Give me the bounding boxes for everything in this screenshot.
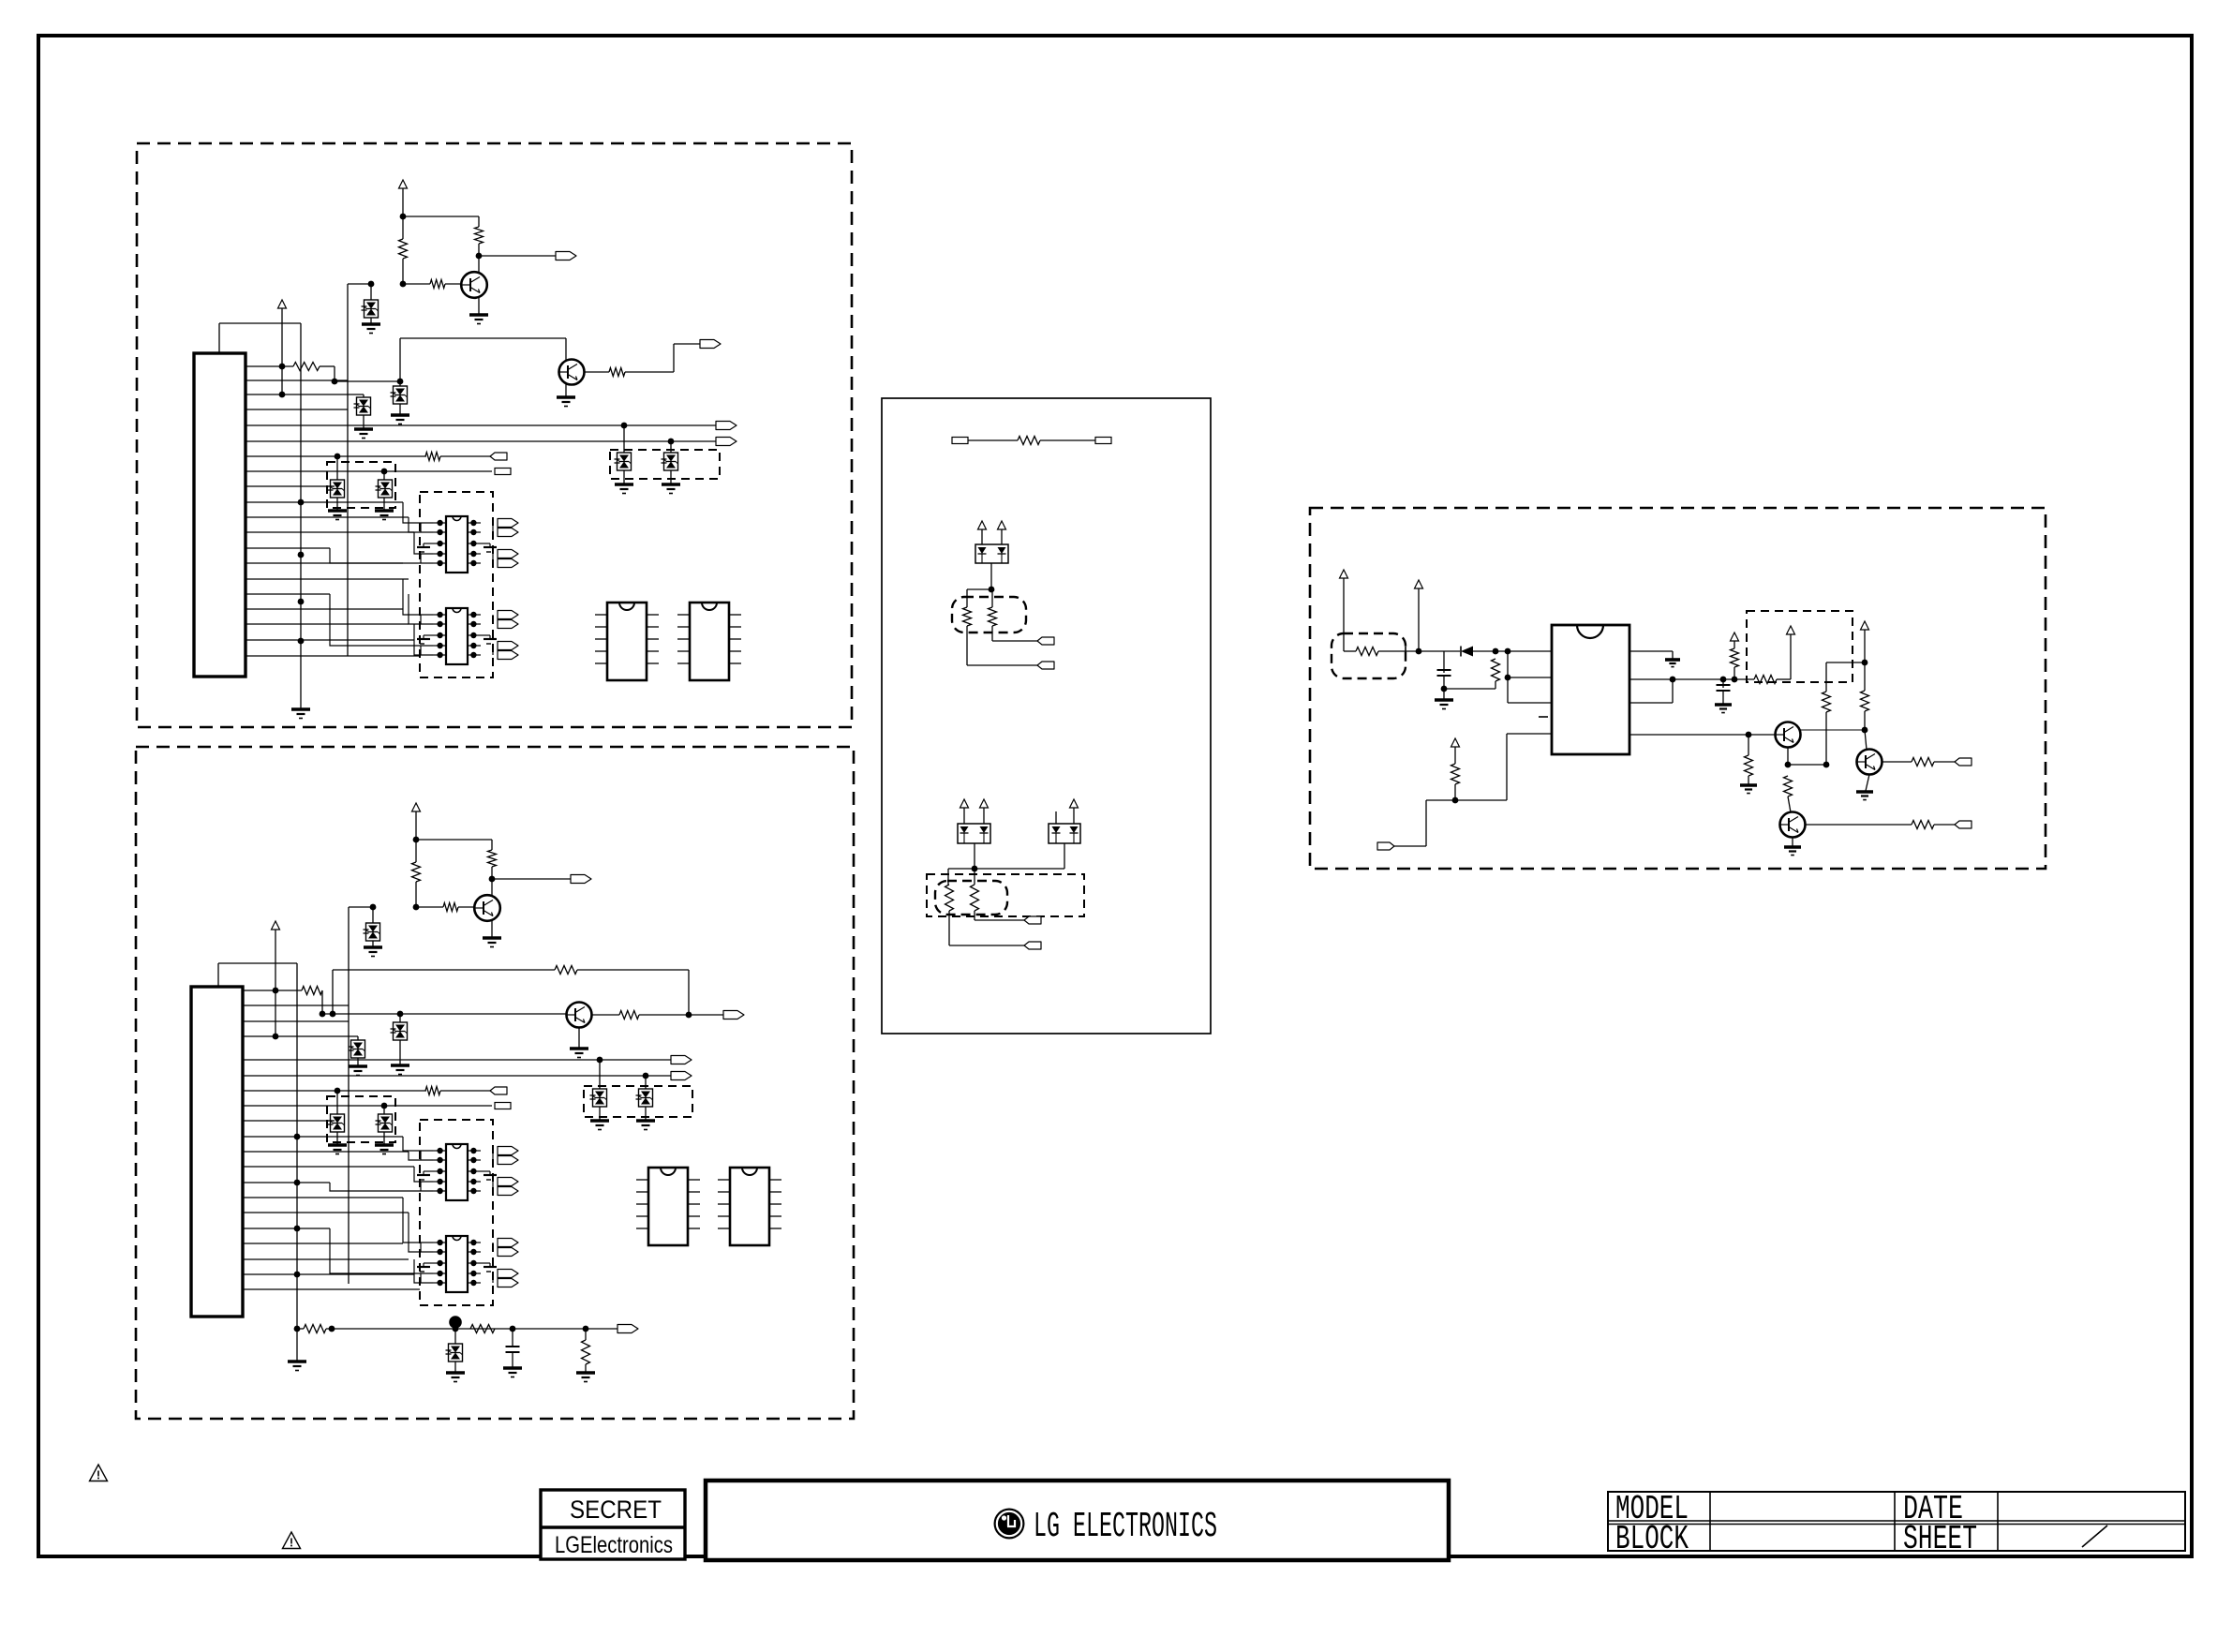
svg-text:SECRET: SECRET: [570, 1496, 662, 1524]
svg-text:LG ELECTRONICS: LG ELECTRONICS: [1034, 1507, 1217, 1547]
svg-text:SHEET: SHEET: [1903, 1520, 1977, 1558]
svg-text:BLOCK: BLOCK: [1615, 1520, 1689, 1558]
svg-text:LGElectronics: LGElectronics: [555, 1532, 673, 1558]
